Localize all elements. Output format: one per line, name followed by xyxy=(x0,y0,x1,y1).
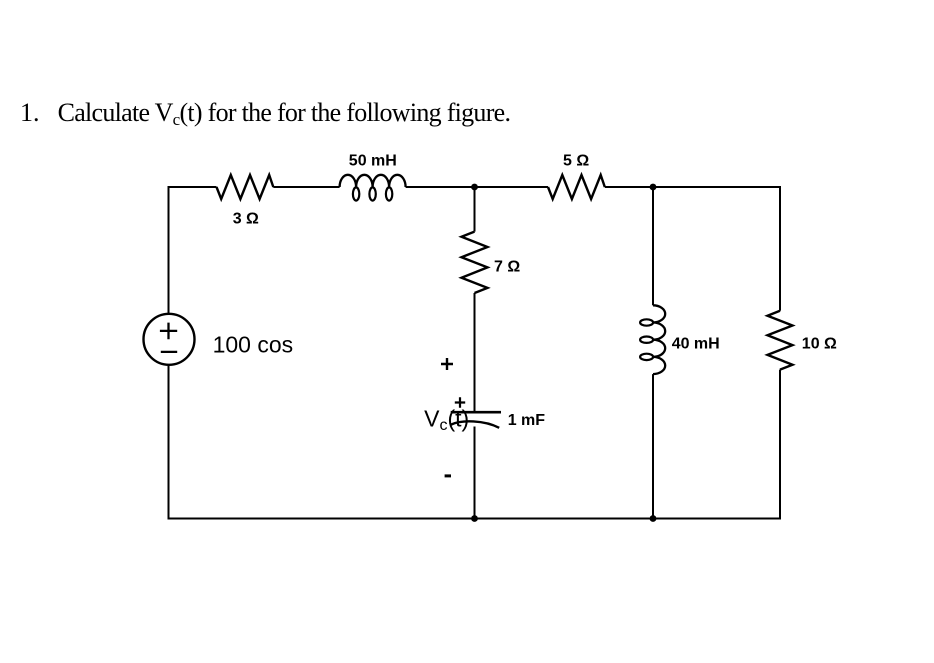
inductor L2 loop 1 xyxy=(640,319,653,325)
title: problem statement text xyxy=(58,100,511,126)
resistor R2 5 ohm (horizontal zigzag) xyxy=(548,175,605,199)
voltage source minus sign xyxy=(161,351,177,353)
capacitor C1 top plate xyxy=(451,411,501,414)
wire: top rail left segment (top-left corner to resistor R1) xyxy=(169,187,217,314)
node D junction dot (bottom, inductor branch) xyxy=(650,515,657,522)
wire: right edge below R4 to bottom-right corner xyxy=(169,365,781,519)
wire: top rail right segment and right edge down to resistor R4 xyxy=(605,187,780,311)
svg-text:5 Ω: 5 Ω xyxy=(563,153,589,170)
wire: top rail between R1 and inductor L1 xyxy=(273,186,339,188)
inductor L1 50 mH (4 humps) xyxy=(340,175,406,187)
wire: inductor branch below L2 to bottom rail xyxy=(652,374,654,518)
voltage source plus sign xyxy=(160,323,177,340)
svg-text:Vc(t): Vc(t) xyxy=(424,405,469,434)
svg-text:50 mH: 50 mH xyxy=(349,153,397,170)
node B junction dot (top, inductor branch) xyxy=(650,184,657,191)
inductor L2 loop 3 xyxy=(640,354,653,360)
svg-text:3 Ω: 3 Ω xyxy=(233,211,259,228)
inductor L2 loop 2 xyxy=(640,337,653,343)
inductor L1 loop 1 xyxy=(353,187,359,200)
svg-text:1 mF: 1 mF xyxy=(508,412,546,429)
wire: middle branch from R3 down to capacitor C1 xyxy=(474,293,476,412)
resistor R1 3 ohm (horizontal zigzag) xyxy=(217,175,274,199)
svg-text:100 cos: 100 cos xyxy=(213,332,294,358)
title: problem statement number xyxy=(20,100,40,126)
resistor R3 7 ohm (vertical zigzag) xyxy=(462,232,488,293)
resistor R4 10 ohm (vertical zigzag) xyxy=(768,311,793,370)
wire: middle branch below capacitor to bottom rail xyxy=(474,427,476,519)
capacitor C1 bottom curved plate xyxy=(451,421,499,427)
capacitor plate plus mark (small, at top plate) xyxy=(455,397,465,407)
svg-text:40 mH: 40 mH xyxy=(672,335,720,352)
inductor L2 40 mH (4 humps bulging right) xyxy=(653,305,665,374)
inductor L1 loop 2 xyxy=(369,187,375,200)
node C junction dot (bottom, capacitor branch) xyxy=(471,515,478,522)
wire: middle branch from node A down to resistor R3 xyxy=(474,187,476,232)
svg-text:10 Ω: 10 Ω xyxy=(802,335,837,352)
inductor L1 loop 3 xyxy=(386,187,392,200)
voltage source VS circle xyxy=(144,314,195,365)
capacitor polarity plus mark (large, above capacitor) xyxy=(441,358,453,370)
node A junction dot (top, capacitor branch) xyxy=(471,184,478,191)
wire: top rail between L1 and resistor R2 xyxy=(406,186,548,188)
capacitor polarity minus mark (below capacitor) xyxy=(445,474,451,477)
svg-text:7 Ω: 7 Ω xyxy=(494,259,520,276)
wire: inductor branch from node B down to inductor L2 xyxy=(652,187,654,305)
